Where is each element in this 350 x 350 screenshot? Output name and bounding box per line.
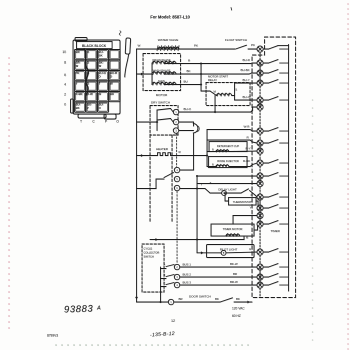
selector dashed risers	[150, 135, 172, 222]
timer switch blade at 143	[263, 140, 289, 143]
wire detergent cup leads	[207, 150, 257, 153]
wire relay coil drop to BU-O run	[214, 96, 216, 114]
wire timer feed row	[150, 236, 244, 241]
timer switch blade at 49	[263, 46, 289, 49]
pilot light loop outline	[207, 245, 255, 258]
collector common riser	[160, 267, 162, 303]
motor start relay dashed enclosure	[206, 83, 250, 106]
terminal block grid cells	[75, 50, 121, 113]
motor wash phase winding	[152, 69, 176, 75]
motor main winding	[152, 79, 176, 85]
timer bus top tie	[278, 45, 289, 47]
timer terminal T13 O	[257, 194, 263, 200]
wire W-R row	[207, 130, 257, 132]
wire relay S to terminal BU-Y	[235, 82, 258, 84]
timer terminal T9 R-Y	[257, 148, 263, 154]
rinse injector solenoid coil	[212, 164, 229, 167]
timer switch blade at 163	[263, 160, 289, 163]
wire selector left drop	[137, 179, 162, 189]
rinse injector solenoid box	[209, 157, 248, 168]
switch column dashed riser upper	[176, 134, 178, 167]
timer terminal T20 BR-W	[257, 282, 263, 288]
door switch terminal	[168, 299, 173, 304]
timer terminal T17 G	[257, 249, 263, 255]
timer motor box	[211, 224, 254, 236]
wire pilot feed	[197, 240, 221, 255]
timer switch blade at 100	[263, 97, 289, 100]
wire R row	[207, 140, 257, 143]
wire T13 row	[197, 183, 257, 185]
timer switch blade at 197	[263, 194, 289, 197]
timer motor coil	[226, 233, 240, 236]
wire thermostat left lead	[224, 192, 229, 201]
timer switch blade at 252	[263, 249, 289, 252]
wire heater to feed bus	[173, 155, 208, 157]
collector contact B	[161, 274, 175, 279]
timer terminal T6	[257, 104, 263, 110]
feed bus vertical	[206, 130, 208, 167]
wire T12 row	[197, 175, 257, 177]
wire wash phase to terminal BU-BK	[164, 73, 257, 74]
wire selector top riser to splice	[180, 134, 194, 171]
timer internal bus	[288, 45, 290, 292]
dry switch terminal 1	[173, 109, 178, 114]
collector contact C	[161, 282, 175, 286]
timer switch blade at 277	[263, 274, 289, 277]
timer switch blade at 73	[263, 70, 289, 73]
timer dashed enclosure	[252, 37, 296, 298]
thermostat box	[229, 198, 257, 206]
timer terminal T15	[257, 212, 263, 218]
wire main winding to relay	[164, 85, 210, 92]
bus 3 terminal	[174, 282, 179, 287]
wire rail to motor feed	[137, 73, 153, 76]
selector terminal C	[174, 185, 179, 190]
timer terminal T3 BU-BK	[257, 70, 263, 76]
connector shell	[125, 38, 131, 77]
timer switch blade at 267	[263, 264, 289, 267]
terminal block row labels	[62, 50, 66, 107]
timer terminal T1 PK	[257, 46, 263, 52]
switch column dashed riser lower	[176, 191, 178, 264]
dry switch terminal 2	[173, 119, 178, 124]
motor start relay S terminal	[232, 83, 238, 96]
wire rail to heater	[137, 154, 158, 157]
timer switch blade at 285	[263, 282, 289, 285]
timer terminal T18 BK-W	[257, 264, 263, 270]
wire dry switch 1 BU-O run	[179, 107, 257, 112]
stray tick top right	[230, 8, 233, 11]
wire bus1 row BK-W	[180, 266, 257, 268]
motor drain phase winding	[152, 58, 176, 64]
bus 1 terminal	[174, 264, 179, 269]
dry switch contact 1	[157, 109, 173, 113]
node Y T labels	[201, 181, 212, 187]
timer terminal T4 BU-Y	[257, 80, 263, 86]
selector terminal A	[174, 167, 179, 172]
wire dry switch 2 to splice	[179, 122, 194, 126]
terminal block header label	[77, 42, 113, 49]
float switch FS1	[225, 38, 257, 49]
timer column solid links	[259, 63, 261, 285]
dry switch dashed enclosure	[150, 106, 178, 136]
timer terminal T12	[257, 180, 263, 186]
pen mark over block	[84, 49, 88, 96]
timer terminal T11	[257, 173, 263, 179]
detergent cup solenoid coil	[212, 149, 229, 152]
selector terminal B	[174, 176, 179, 181]
scan dots right inner column	[312, 100, 314, 340]
wire selector bottom to delay row	[180, 188, 198, 190]
motor start relay K1 label	[208, 74, 228, 82]
splice connectors	[193, 124, 199, 133]
timer terminal T10 R-BK	[257, 160, 263, 166]
timer switch blade at 176	[263, 173, 289, 176]
wire bus2 row BR	[180, 276, 257, 278]
detergent cup solenoid box	[209, 142, 247, 152]
pilot light lamp DS2	[221, 250, 226, 255]
wire left rail	[136, 49, 138, 302]
door switch contact	[174, 298, 252, 304]
scan dotted line bottom	[56, 344, 248, 346]
scan dots left margin	[8, 58, 10, 328]
timer terminal T2 BU-R	[257, 60, 263, 66]
scan dots right edge	[347, 4, 349, 349]
timer terminal T5 BU-O	[257, 97, 263, 103]
wire relay to terminal BU-O	[235, 96, 258, 101]
motor start relay armature contact	[210, 91, 217, 96]
wire drain phase to terminal BU-R	[164, 62, 257, 65]
wire bus3 row BR-W	[180, 284, 257, 286]
block left protrusion	[71, 99, 74, 113]
dry switch contact 2	[157, 119, 173, 123]
selector contact arm	[162, 173, 174, 180]
node BK labels door	[215, 297, 240, 301]
wire top rail	[137, 48, 234, 50]
dry switch terminal 3	[173, 128, 178, 133]
timer switch blade at 63	[263, 60, 289, 63]
heater element	[158, 153, 174, 156]
motor M1 dashed enclosure	[143, 54, 181, 91]
cycle collector switch dashed enclosure	[142, 244, 164, 292]
terminal block column labels	[80, 120, 119, 124]
dry switch common wire	[137, 110, 159, 131]
cycle collector switch label	[144, 247, 160, 259]
bus 2 terminal	[174, 274, 179, 279]
wire timer motor right to T17	[254, 224, 258, 230]
timer switch blade at 131	[263, 128, 289, 131]
timer switch blade at 224	[263, 221, 289, 224]
motor start relay coil	[214, 90, 232, 97]
wire rail bottom to door switch	[135, 297, 168, 302]
timer terminal T7 W-R	[257, 128, 263, 134]
wire T16 row	[233, 216, 257, 225]
timer column dashed links	[259, 52, 261, 296]
timer switch blade at 208	[263, 205, 289, 208]
wire delay light row	[197, 189, 222, 194]
wire pilot to terminal G	[226, 251, 257, 254]
timer switch blade at 83	[263, 80, 289, 83]
delay light switch contact	[226, 189, 257, 197]
stray squiggle mark	[119, 31, 121, 35]
timer terminal T8 R	[257, 140, 263, 146]
timer terminal T14 Y	[257, 205, 263, 211]
supply label 120 VAC 60 HZ	[232, 306, 245, 318]
wire dry switch 3 to splice	[179, 130, 194, 132]
junction drain-wash tie	[200, 63, 202, 86]
wire motor common vertical	[151, 64, 153, 85]
terminal block outline	[73, 38, 120, 120]
timer terminal T19 BR	[257, 274, 263, 280]
timer terminal T16	[257, 221, 263, 227]
water valve coil L1	[157, 46, 179, 51]
delay light lamp DS1	[218, 187, 237, 195]
wire thermostat right lead	[256, 201, 258, 208]
wire rinse injector leads	[207, 163, 257, 167]
collector contact A	[161, 263, 175, 268]
vertical net bus mid	[196, 175, 198, 240]
